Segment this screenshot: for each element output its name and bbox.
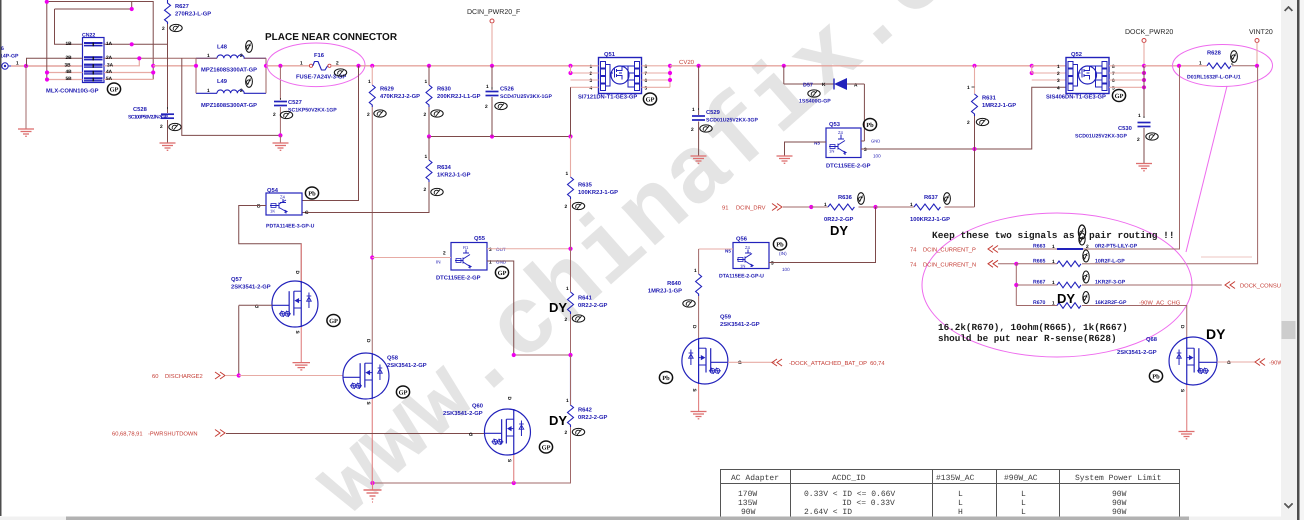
svg-text:0R2J-2-GP: 0R2J-2-GP	[578, 302, 607, 309]
svg-text:1: 1	[489, 260, 492, 266]
junction CV20 pin7	[668, 71, 672, 75]
ground C527 node	[273, 143, 289, 150]
svg-text:1: 1	[1057, 64, 1060, 70]
resistor R636	[811, 194, 875, 223]
svg-text:0R2J-2-GP: 0R2J-2-GP	[824, 216, 853, 223]
svg-text:Z4: Z4	[838, 130, 844, 135]
svg-text:3: 3	[1057, 78, 1060, 84]
GP stamp Q60	[539, 441, 552, 453]
svg-text:VINT20: VINT20	[1249, 29, 1273, 36]
svg-text:D: D	[691, 325, 697, 329]
svg-text:2: 2	[443, 251, 446, 257]
ground Q53 base	[777, 156, 793, 163]
svg-text:200KR2J-L1-GP: 200KR2J-L1-GP	[437, 93, 481, 100]
svg-text:4: 4	[590, 86, 593, 92]
svg-text:DTA115EE-2-GP-U: DTA115EE-2-GP-U	[719, 274, 764, 280]
stamp R667	[1083, 271, 1089, 283]
svg-text:4: 4	[1057, 86, 1060, 92]
svg-text:16.2k(R670), 10ohm(R665), 1k(R: 16.2k(R670), 10ohm(R665), 1k(R667)	[938, 322, 1128, 333]
GP stamp Q55	[495, 267, 508, 279]
junction mid rail right	[568, 134, 572, 138]
svg-text:Q58: Q58	[387, 355, 399, 362]
wire Q57 gate down to DISCHARGE2	[238, 306, 240, 376]
faint segment near VINT wire	[1201, 256, 1252, 258]
svg-text:D: D	[365, 339, 371, 343]
transistor Q54 digital PNP	[257, 187, 315, 230]
wire DISCHARGE2 to Q58 gate	[239, 375, 343, 377]
wire Q56 out to R636 junction	[769, 207, 876, 263]
wire 2B row	[27, 58, 83, 66]
wire C530 to ground	[1143, 128, 1145, 163]
svg-text:R627: R627	[175, 3, 189, 10]
svg-text:Pb: Pb	[776, 242, 784, 249]
svg-text:1: 1	[694, 268, 697, 274]
svg-text:2: 2	[565, 204, 568, 210]
wire main bus to L-block	[153, 65, 196, 67]
wire bottom rail to ground	[372, 483, 374, 490]
svg-text:GP: GP	[329, 318, 338, 325]
svg-text:L48: L48	[217, 44, 228, 51]
svg-text:1A: 1A	[106, 41, 113, 47]
svg-text:R641: R641	[578, 295, 593, 302]
wire R642 to bottom rail	[373, 427, 571, 483]
wire R627 to 1A row to C528	[167, 24, 169, 113]
svg-text:SCD01U25V2KX-3GP: SCD01U25V2KX-3GP	[706, 118, 758, 124]
svg-text:1K: 1K	[270, 209, 275, 214]
ellipse fuse highlight	[267, 43, 365, 87]
watermark www.chinafix	[295, 0, 971, 520]
svg-text:2: 2	[240, 53, 243, 59]
svg-text:G: G	[469, 432, 473, 438]
svg-text:14P-GP: 14P-GP	[0, 54, 19, 60]
ground bottom rail	[364, 490, 382, 502]
stamp R627	[170, 24, 182, 31]
svg-text:R628: R628	[1207, 50, 1222, 57]
wire Q53 base stub to ground	[785, 142, 827, 156]
svg-text:GP: GP	[399, 390, 408, 397]
svg-text:R642: R642	[578, 407, 592, 414]
Pb stamp Q54	[305, 187, 318, 199]
junction bus R629 tap	[370, 64, 374, 68]
svg-text:1: 1	[967, 85, 970, 91]
ellipse R628 highlight	[1173, 45, 1273, 87]
svg-text:1B: 1B	[66, 41, 73, 47]
svg-text:7: 7	[1112, 71, 1115, 77]
svg-text:N5: N5	[814, 141, 820, 146]
svg-text:2: 2	[1137, 137, 1140, 143]
svg-text:GP: GP	[110, 87, 119, 94]
resistor R628	[1187, 50, 1257, 81]
svg-text:DTC115EE-2-GP: DTC115EE-2-GP	[826, 163, 871, 170]
node DCIN input off-page connector	[0, 46, 19, 69]
wire 4A row	[104, 72, 153, 74]
stamp C526	[495, 102, 507, 109]
junction y355 right	[568, 353, 572, 357]
capacitor C528	[128, 106, 174, 130]
junction mid rail left	[427, 134, 431, 138]
svg-text:SIS406DN-T1-GE3-GP: SIS406DN-T1-GE3-GP	[1046, 94, 1106, 101]
svg-text:K: K	[822, 82, 826, 88]
wire 3A row up to 2A	[104, 58, 139, 66]
junction bus Q52 pin1	[1030, 64, 1034, 68]
svg-text:SI7121DN-T1-GE3-GP: SI7121DN-T1-GE3-GP	[578, 94, 637, 101]
svg-text:1: 1	[300, 61, 303, 67]
diode D57	[784, 66, 865, 105]
ground C530	[1136, 164, 1152, 171]
svg-text:2: 2	[565, 430, 568, 436]
svg-text:2A: 2A	[106, 55, 113, 61]
resistor R665	[1016, 258, 1125, 266]
svg-text:System Power Limit: System Power Limit	[1075, 474, 1161, 483]
svg-text:L: L	[1021, 490, 1026, 499]
svg-text:3: 3	[489, 247, 492, 253]
svg-text:74: 74	[910, 263, 917, 269]
stamp R663	[1079, 233, 1085, 245]
svg-text:1MR2J-1-GP: 1MR2J-1-GP	[982, 102, 1016, 109]
scrollbar down arrow	[1285, 504, 1293, 508]
wire R665 left to R670	[1015, 264, 1017, 306]
junction bus at x153	[151, 64, 155, 68]
junction CV20 pin6	[668, 78, 672, 82]
junction bus C526 tap	[490, 64, 494, 68]
svg-text:5A: 5A	[106, 76, 113, 82]
svg-text:C: C	[305, 210, 309, 216]
svg-text:GP: GP	[646, 97, 655, 104]
svg-text:2: 2	[967, 120, 970, 126]
Pb stamp Q53	[863, 119, 876, 131]
svg-text:1: 1	[486, 84, 489, 90]
svg-text:GP: GP	[542, 445, 551, 452]
stamp R641	[572, 315, 584, 322]
svg-text:2: 2	[485, 104, 488, 110]
stamp R636	[858, 193, 865, 205]
svg-text:2SK3541-2-GP: 2SK3541-2-GP	[387, 362, 427, 369]
svg-text:pair routing !!: pair routing !!	[1089, 230, 1175, 241]
wire R637 right riser	[974, 149, 976, 207]
svg-text:R635: R635	[578, 182, 593, 189]
svg-text:60: 60	[152, 373, 158, 380]
svg-text:1: 1	[368, 79, 371, 85]
junction y355 left	[512, 353, 516, 357]
svg-text:R1: R1	[463, 245, 469, 250]
svg-text:Q55: Q55	[474, 235, 486, 242]
stamp R635	[572, 202, 584, 209]
fuse F16	[296, 52, 346, 81]
svg-text:1: 1	[566, 398, 569, 404]
inductor L48	[196, 44, 266, 74]
svg-text:Q53: Q53	[829, 121, 841, 128]
wire Q51 pin4 down to mid rail	[570, 87, 572, 136]
stamp R628	[1231, 51, 1238, 63]
window right edge dark line	[1297, 0, 1300, 520]
svg-text:ACDC_ID: ACDC_ID	[832, 474, 866, 483]
svg-text:Z4: Z4	[745, 245, 751, 250]
junction R667 left	[1014, 283, 1018, 287]
svg-text:3B: 3B	[65, 63, 72, 69]
wire bus Q52 to R628	[1144, 65, 1207, 67]
callout line R628 to note	[1186, 86, 1227, 252]
Pb stamp Q56	[773, 238, 786, 250]
svg-text:DCIN_PWR20_F: DCIN_PWR20_F	[467, 9, 520, 16]
svg-text:R667: R667	[1033, 280, 1046, 286]
svg-text:2: 2	[162, 26, 165, 32]
wire R641 to junction	[570, 314, 572, 355]
wire Q51 pin stubs left	[571, 66, 599, 88]
svg-text:Pb: Pb	[866, 122, 874, 129]
svg-text:-PWRSHUTDOWN: -PWRSHUTDOWN	[148, 431, 198, 438]
svg-text:DCIN_CURRENT_N: DCIN_CURRENT_N	[923, 262, 976, 269]
svg-text:R629: R629	[380, 86, 395, 93]
terminal DCIN_PWR20_F	[467, 9, 520, 66]
wire R640 to Q59 drain	[698, 296, 700, 339]
ground C528	[160, 143, 176, 150]
svg-text:2SK3541-2-GP: 2SK3541-2-GP	[443, 410, 483, 417]
GP stamp Q52	[1112, 90, 1125, 102]
wire bus CV20 to Q52	[670, 65, 1066, 67]
wire 1A row to R627 column	[104, 43, 168, 45]
svg-text:Q56: Q56	[736, 236, 748, 243]
wire R631 to pin3 rail	[974, 116, 976, 149]
CN22 pin labels	[46, 41, 114, 95]
stamp R665	[1083, 250, 1089, 262]
GP stamp Q58	[396, 386, 409, 398]
svg-text:Q57: Q57	[231, 276, 242, 283]
svg-text:GP: GP	[498, 270, 507, 277]
net label DISCHARGE2	[152, 372, 239, 380]
wire Q55 out stub	[487, 248, 571, 250]
svg-text:1KR2F-3-GP: 1KR2F-3-GP	[1095, 280, 1126, 286]
transistor Q56 digital PNP	[719, 236, 790, 280]
svg-text:2: 2	[273, 112, 276, 118]
stamp R630	[431, 110, 443, 117]
svg-text:G: G	[1227, 360, 1231, 366]
net label DCIN_DRV	[722, 204, 811, 212]
net label -90W gate	[1255, 359, 1283, 367]
wire VINT20 down to R665	[1090, 66, 1258, 264]
svg-text:2: 2	[160, 124, 163, 130]
svg-text:DY: DY	[1206, 326, 1226, 342]
wire R628 left down to R663	[1090, 66, 1180, 249]
wire C527 junction to ground	[279, 135, 281, 142]
svg-text:16K2R2F-GP: 16K2R2F-GP	[1095, 300, 1127, 306]
resistor R640	[648, 249, 702, 296]
svg-text:Q60: Q60	[472, 403, 483, 410]
svg-text:DOCK_PWR20: DOCK_PWR20	[1125, 29, 1173, 36]
svg-text:-DOCK_ATTACHED_BAT_OP 60,74: -DOCK_ATTACHED_BAT_OP 60,74	[789, 360, 885, 367]
svg-text:8: 8	[1112, 64, 1115, 70]
svg-text:-90W_AC_CHG: -90W_AC_CHG	[1139, 300, 1181, 307]
junction Q51 pin1	[568, 64, 572, 68]
svg-text:IN: IN	[436, 260, 441, 265]
svg-text:3: 3	[771, 261, 774, 267]
svg-text:C528: C528	[133, 106, 148, 113]
svg-text:DY: DY	[549, 413, 567, 428]
svg-text:2: 2	[424, 187, 427, 193]
svg-text:60,68,78,91: 60,68,78,91	[112, 431, 143, 438]
svg-text:1: 1	[566, 171, 569, 177]
svg-text:SC1KP50V2KX-1GP: SC1KP50V2KX-1GP	[288, 108, 337, 114]
wire C529 to ground	[698, 122, 700, 156]
resistor R635	[565, 137, 619, 211]
svg-text:1N: 1N	[740, 264, 745, 269]
resistor R627	[162, 0, 211, 32]
ground Q59 source	[691, 412, 707, 419]
svg-text:L: L	[958, 490, 963, 499]
svg-text:100KR2J-1-GP: 100KR2J-1-GP	[910, 216, 950, 223]
svg-text:R630: R630	[437, 86, 451, 93]
svg-text:SCD47U25V3KX-1GP: SCD47U25V3KX-1GP	[500, 94, 552, 100]
svg-text:5: 5	[645, 86, 648, 92]
svg-text:R663: R663	[1033, 244, 1046, 250]
svg-text:C527: C527	[288, 99, 302, 106]
svg-text:90W: 90W	[741, 508, 756, 517]
junction 4B	[45, 70, 49, 74]
junction CV20 pin8	[668, 64, 672, 68]
svg-text:2: 2	[590, 71, 593, 77]
net label DOCK_CONSUME	[1225, 282, 1290, 290]
window chrome: left edge line	[0, 0, 2, 516]
svg-text:2SK3541-2-GP: 2SK3541-2-GP	[720, 321, 760, 328]
stamp C528	[169, 123, 181, 130]
stamp C529	[700, 125, 712, 132]
svg-text:10R2F-L-GP: 10R2F-L-GP	[1095, 258, 1125, 264]
svg-text:100KR2J-1-GP: 100KR2J-1-GP	[578, 189, 618, 196]
svg-text:AC Adapter: AC Adapter	[731, 474, 779, 483]
wire L-block right vertical	[265, 58, 267, 93]
transistor Q52 dual MOSFET	[1046, 51, 1115, 101]
junction C527 tap	[278, 64, 282, 68]
svg-text:3: 3	[864, 147, 867, 153]
svg-text:2: 2	[691, 127, 694, 133]
resistor R634	[424, 137, 471, 194]
junction C529 tap	[697, 64, 701, 68]
svg-text:SCD01U25V2KX-3GP: SCD01U25V2KX-3GP	[1075, 134, 1127, 140]
svg-text:1: 1	[1199, 61, 1202, 67]
transistor Q55 digital NPN	[436, 235, 507, 282]
junction Q55 pin2 tap	[370, 255, 374, 259]
junction DOCK rail pins	[1142, 64, 1146, 68]
stamp R637	[944, 193, 951, 205]
svg-text:1: 1	[692, 107, 695, 113]
GP stamp near Q57	[327, 315, 340, 327]
wire 2A tap down x181.8	[182, 58, 281, 135]
junction 4A at x153	[151, 70, 155, 74]
svg-text:H: H	[958, 508, 963, 517]
junction D57 tap	[782, 64, 786, 68]
junction R665 left	[1014, 262, 1018, 266]
svg-text:C530: C530	[1118, 125, 1132, 132]
svg-text:270R2J-L-GP: 270R2J-L-GP	[175, 11, 211, 18]
svg-text:#90W_AC: #90W_AC	[1004, 474, 1038, 483]
svg-text:7: 7	[645, 71, 648, 77]
svg-text:MPZ1608S300AT-GP: MPZ1608S300AT-GP	[201, 102, 257, 109]
svg-text:R636: R636	[838, 194, 853, 201]
junction mid rail C526	[490, 134, 494, 138]
svg-text:1KR2J-1-GP: 1KR2J-1-GP	[437, 172, 471, 179]
capacitor C527	[273, 66, 337, 136]
wire Q51 pin2 drop	[570, 66, 572, 73]
capacitor C529	[691, 66, 758, 133]
wire input to CN22 3B	[11, 65, 83, 67]
svg-text:1MR2J-1-GP: 1MR2J-1-GP	[648, 288, 682, 295]
svg-text:D: D	[1179, 325, 1185, 329]
ellipse keep-signals note	[922, 213, 1192, 357]
svg-text:90W: 90W	[1112, 499, 1127, 508]
transistor Q51 dual MOSFET	[578, 51, 648, 101]
junction bus R630 tap	[427, 64, 431, 68]
svg-text:ID <= 0.33V: ID <= 0.33V	[842, 499, 895, 508]
connector CN22	[82, 33, 104, 83]
transistor Q58 MOSFET	[343, 339, 427, 483]
stamp R629	[374, 110, 386, 117]
svg-text:GND: GND	[496, 260, 507, 265]
svg-text:DCIN_DRV: DCIN_DRV	[736, 205, 766, 212]
ground input node	[18, 129, 34, 136]
transistor Q68 MOSFET	[1117, 325, 1255, 431]
resistor R641	[565, 286, 608, 323]
wire C528 to ground	[167, 120, 169, 143]
horizontal scrollbar track	[0, 517, 1281, 520]
inductor L49	[196, 78, 266, 109]
stamp C527	[280, 111, 292, 118]
wire 4B row	[47, 72, 83, 74]
svg-text:0R2J-2-GP: 0R2J-2-GP	[578, 414, 607, 421]
svg-text:R631: R631	[982, 95, 997, 102]
svg-text:2SK3541-2-GP: 2SK3541-2-GP	[1117, 349, 1157, 356]
svg-text:2: 2	[424, 112, 427, 118]
svg-text:should be put near R-sense(R62: should be put near R-sense(R628)	[938, 333, 1117, 344]
wire 2A row to L48	[104, 57, 196, 59]
svg-text:100: 100	[782, 267, 790, 272]
svg-text:R670: R670	[1033, 300, 1046, 306]
junction Q55 out	[568, 247, 572, 251]
wire rail y355	[514, 354, 571, 356]
junction bus Q54 tap	[356, 64, 360, 68]
svg-text:135W: 135W	[738, 499, 757, 508]
svg-text:470KR2J-2-GP: 470KR2J-2-GP	[380, 93, 420, 100]
svg-text:DY: DY	[1057, 291, 1075, 306]
svg-text:GP: GP	[1115, 93, 1124, 100]
svg-text:1: 1	[1052, 259, 1055, 265]
resistor R670	[1016, 300, 1180, 309]
wire Q51 pin stubs right to CV20	[642, 66, 671, 88]
net label PWRSHUTDOWN	[112, 430, 484, 438]
svg-text:1: 1	[1138, 113, 1141, 119]
svg-text:D: D	[506, 397, 512, 401]
svg-text:170W: 170W	[738, 490, 757, 499]
svg-text:100: 100	[873, 154, 881, 159]
junction L-block left on bus	[194, 64, 198, 68]
wire R670 to Q68 drain	[1082, 306, 1187, 339]
wire Q54 emitter chain	[302, 66, 359, 201]
svg-text:L49: L49	[217, 78, 228, 85]
wire R641 column	[570, 249, 572, 292]
svg-text:R634: R634	[437, 164, 452, 171]
svg-text:DISCHARGE2: DISCHARGE2	[165, 373, 203, 380]
wire mid rail y136.5	[429, 136, 571, 138]
vertical scrollbar thumb	[1282, 321, 1296, 339]
stamp L49	[246, 76, 253, 88]
ground Q57 source	[293, 363, 311, 370]
svg-text:Q68: Q68	[1146, 336, 1158, 343]
stamp F16	[334, 69, 346, 76]
svg-text:R637: R637	[924, 194, 938, 201]
wire input node to ground	[25, 66, 27, 129]
junction bus Q52 pin2	[1030, 71, 1034, 75]
svg-text:2: 2	[1086, 244, 1089, 250]
svg-text:R665: R665	[1033, 258, 1046, 264]
svg-text:A: A	[854, 83, 858, 89]
